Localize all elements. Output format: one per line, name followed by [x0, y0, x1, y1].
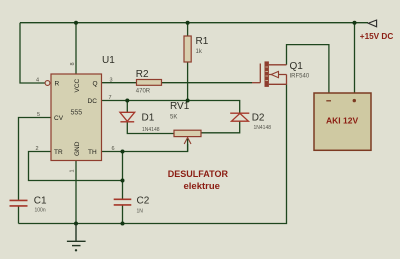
svg-text:470R: 470R: [136, 89, 151, 95]
svg-text:AKI 12V: AKI 12V: [326, 116, 358, 126]
svg-text:6: 6: [112, 146, 115, 152]
svg-text:R1: R1: [196, 36, 209, 47]
svg-text:3: 3: [110, 78, 113, 84]
svg-text:R: R: [55, 81, 60, 88]
svg-text:C1: C1: [34, 196, 47, 207]
svg-text:Q1: Q1: [290, 61, 304, 72]
svg-text:555: 555: [71, 110, 83, 117]
svg-text:1N: 1N: [137, 209, 144, 215]
svg-text:4: 4: [36, 78, 39, 84]
svg-text:8: 8: [70, 62, 76, 65]
svg-text:DC: DC: [88, 98, 98, 105]
svg-text:U1: U1: [102, 55, 115, 66]
svg-text:1: 1: [70, 169, 76, 172]
svg-text:D2: D2: [252, 113, 265, 124]
svg-text:5: 5: [37, 112, 40, 118]
svg-text:RV1: RV1: [170, 101, 190, 112]
svg-text:GND: GND: [74, 141, 81, 156]
svg-text:C2: C2: [137, 196, 150, 207]
svg-text:1N4148: 1N4148: [142, 127, 160, 133]
svg-text:D1: D1: [142, 113, 155, 124]
svg-text:Q: Q: [93, 81, 98, 88]
svg-text:5K: 5K: [170, 115, 177, 121]
svg-text:CV: CV: [54, 115, 64, 122]
svg-text:VCC: VCC: [74, 78, 81, 92]
svg-text:DESULFATOR: DESULFATOR: [168, 169, 229, 179]
svg-text:+15V DC: +15V DC: [360, 32, 394, 41]
svg-text:R2: R2: [136, 69, 149, 80]
svg-text:elektrue: elektrue: [184, 181, 220, 192]
svg-text:TH: TH: [88, 149, 97, 156]
svg-text:1N4148: 1N4148: [254, 125, 272, 131]
svg-text:2: 2: [36, 146, 39, 152]
svg-text:TR: TR: [54, 149, 63, 156]
svg-text:7: 7: [109, 95, 112, 101]
svg-text:100n: 100n: [35, 208, 46, 214]
svg-text:IRF540: IRF540: [290, 74, 310, 80]
svg-text:1k: 1k: [196, 49, 203, 55]
